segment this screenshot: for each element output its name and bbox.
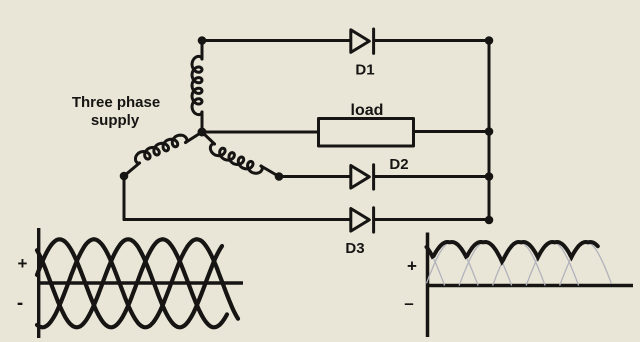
wire load to bus bbox=[414, 130, 490, 133]
sine wave phase 2 bbox=[37, 239, 238, 327]
svg-text:-: - bbox=[17, 293, 23, 314]
svg-text:+: + bbox=[407, 257, 417, 276]
gray phase hump 5 (rectified, conducting segments below envelope) bbox=[526, 242, 579, 286]
svg-text:supply: supply bbox=[91, 112, 140, 129]
left plot vertical axis bbox=[37, 228, 40, 338]
wire bottom to D3 bbox=[124, 218, 351, 221]
node top-left junction bbox=[198, 36, 207, 45]
svg-text:D2: D2 bbox=[389, 156, 408, 173]
diode D1 bbox=[351, 29, 374, 53]
wire right bus bbox=[488, 41, 491, 221]
node D3-bus junction bbox=[485, 216, 494, 225]
svg-text:Three phase: Three phase bbox=[72, 94, 160, 111]
wire coil B top lead bbox=[186, 132, 203, 143]
diode D2 bbox=[351, 165, 374, 189]
node load-bus junction bbox=[485, 127, 494, 136]
sine wave phase 3 bbox=[37, 239, 222, 327]
wire phase2 to D2 bbox=[279, 175, 351, 178]
wire phase3 down bbox=[123, 176, 126, 220]
right plot vertical axis bbox=[426, 233, 430, 338]
svg-text:–: – bbox=[404, 294, 413, 313]
node D2-bus junction bbox=[485, 172, 494, 181]
gray phase hump 3 (rectified, conducting segments below envelope) bbox=[459, 242, 512, 286]
node top-right junction bbox=[485, 36, 494, 45]
node phase2 terminal bbox=[275, 172, 284, 181]
wire coil B bottom lead bbox=[124, 163, 140, 176]
right plot horizontal axis bbox=[426, 284, 633, 288]
rectified output envelope bbox=[427, 242, 598, 262]
load resistor box bbox=[319, 119, 414, 147]
wire D2 to bus bbox=[375, 175, 490, 178]
gray phase hump 4 (rectified, conducting segments below envelope) bbox=[493, 242, 545, 286]
left plot horizontal axis bbox=[37, 281, 243, 284]
wire coil A top lead bbox=[201, 41, 204, 60]
wire D3 to bus bbox=[375, 218, 490, 221]
wire star to load bbox=[202, 131, 318, 134]
gray phase hump 6 (rectified, conducting segments below envelope) bbox=[560, 242, 612, 286]
wire coil A bottom lead bbox=[201, 112, 204, 132]
svg-text:D1: D1 bbox=[355, 62, 374, 79]
inductor winding C (right phase) bbox=[210, 144, 262, 174]
svg-text:load: load bbox=[351, 102, 384, 119]
inductor winding B (left phase) bbox=[136, 135, 187, 163]
diode D3 bbox=[351, 208, 374, 232]
wire coil C bottom lead bbox=[261, 166, 279, 177]
wire top right (D1 to bus) bbox=[375, 39, 490, 42]
node phase3 terminal bbox=[120, 172, 129, 181]
svg-text:D3: D3 bbox=[345, 240, 364, 257]
gray phase hump 2 (rectified, conducting segments below envelope) bbox=[427, 242, 479, 286]
node star point bbox=[198, 128, 207, 137]
sine wave phase 1 bbox=[37, 239, 227, 327]
svg-text:+: + bbox=[18, 254, 28, 273]
wire coil C top lead bbox=[202, 132, 215, 144]
inductor winding A (vertical) bbox=[192, 56, 202, 114]
wire top left (node A to D1) bbox=[202, 39, 351, 42]
gray phase hump 1 (rectified, conducting segments below envelope) bbox=[427, 247, 445, 286]
